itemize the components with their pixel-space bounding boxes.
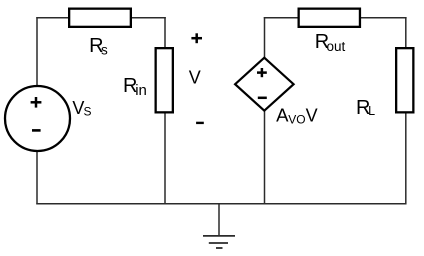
svg-text:s: s <box>101 43 108 58</box>
wire: Rout right to RL corner <box>360 17 407 19</box>
svg-text:out: out <box>327 39 346 54</box>
resistor RL <box>396 48 413 112</box>
svg-text:V: V <box>306 106 318 126</box>
wire: left vertical from top rail to source VS top <box>36 17 38 86</box>
wire: dependent source top vertical <box>264 17 266 59</box>
wire: ground stub <box>218 203 220 236</box>
svg-text:A: A <box>276 105 289 126</box>
plus sign inside VS <box>31 97 42 108</box>
dependent source AvoV (diamond) <box>235 58 294 111</box>
wire: Rin top vertical <box>164 17 166 48</box>
resistor Rs <box>69 9 131 27</box>
wire: VS bottom vertical <box>36 152 38 205</box>
wire: top-left rail to Rs <box>36 17 69 19</box>
wire: Rs right to Rin corner <box>131 17 166 19</box>
label port plus <box>191 33 202 43</box>
plus sign inside diamond <box>257 68 267 77</box>
label port minus <box>196 122 204 124</box>
minus sign inside diamond <box>258 97 267 100</box>
minus sign inside VS <box>32 129 41 132</box>
svg-text:V: V <box>189 68 201 88</box>
wire: top-right rail to Rout <box>264 17 299 19</box>
wire: bottom rail <box>36 203 406 205</box>
svg-text:in: in <box>135 82 147 99</box>
wire: RL top vertical <box>405 17 407 48</box>
svg-text:L: L <box>368 104 375 118</box>
wire: Rin bottom vertical <box>164 113 166 205</box>
voltage source VS <box>5 86 70 151</box>
svg-text:S: S <box>84 105 92 119</box>
svg-text:VO: VO <box>288 113 305 127</box>
wire: dependent source bottom vertical <box>264 110 266 204</box>
resistor Rin <box>156 48 173 112</box>
wire: RL bottom vertical <box>405 113 407 205</box>
ground <box>203 236 235 248</box>
resistor Rout <box>299 9 360 27</box>
